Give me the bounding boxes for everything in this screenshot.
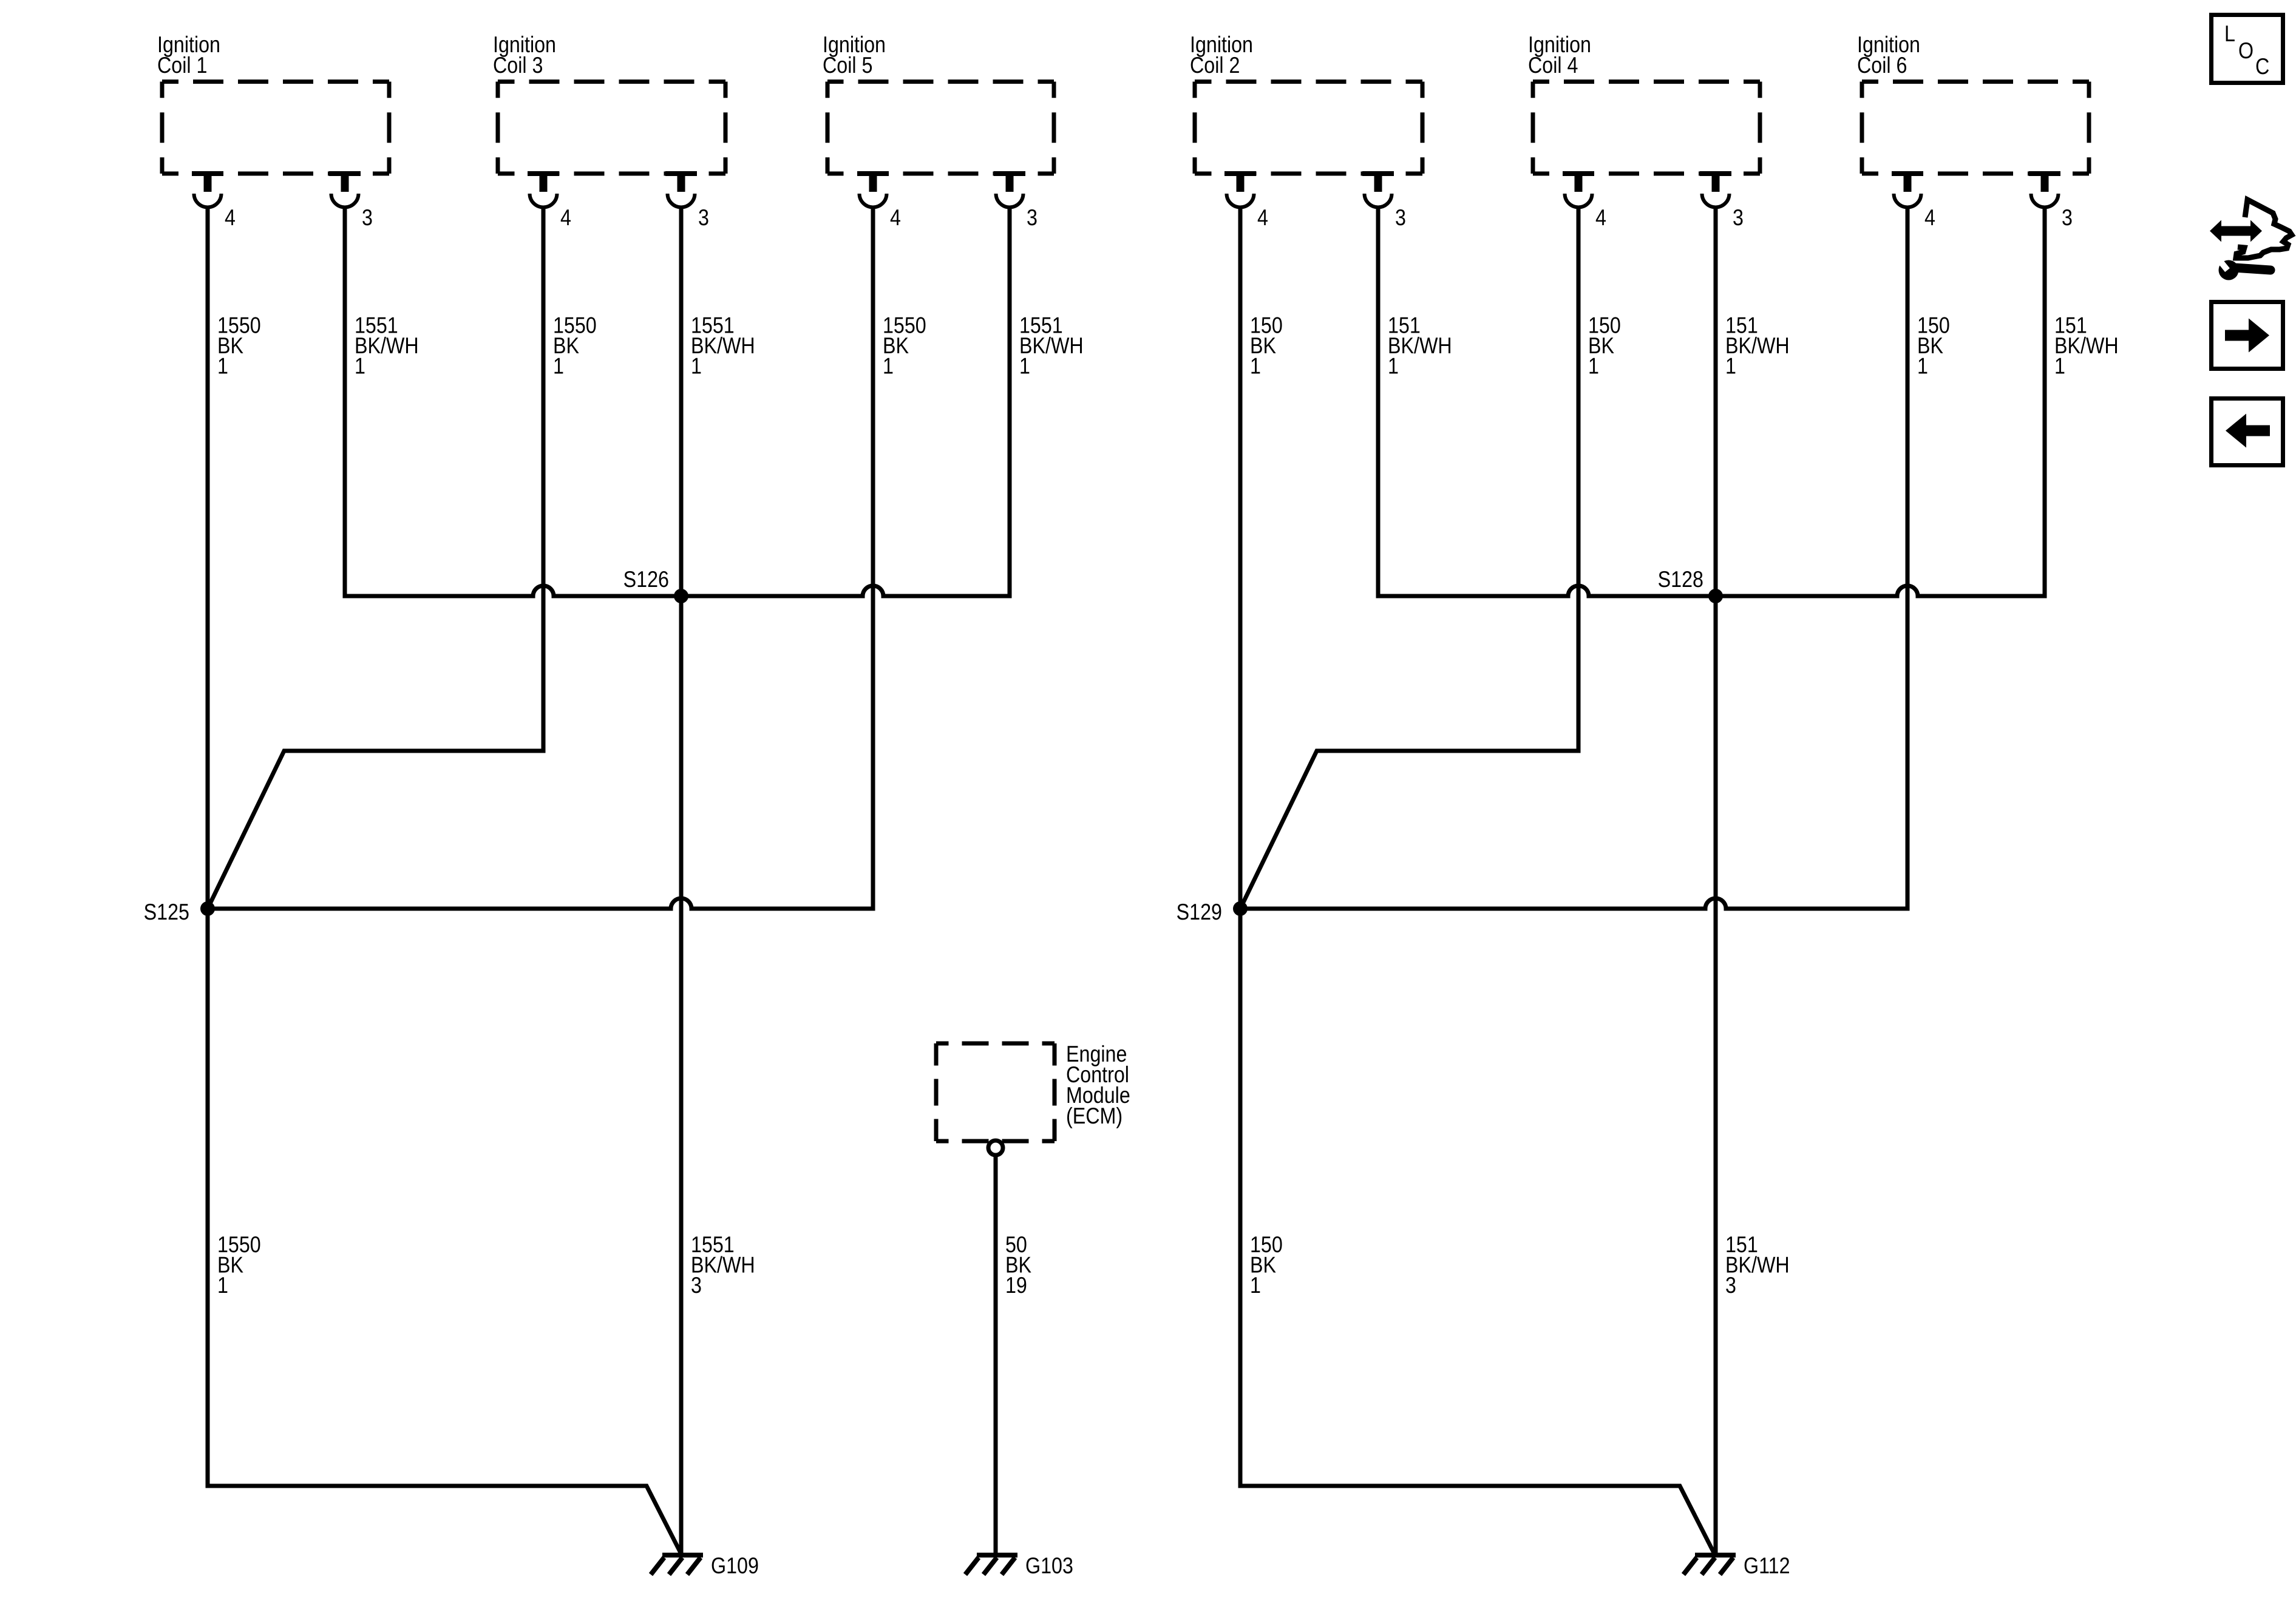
wire label 1550 BK 1 bbox=[883, 313, 926, 379]
svg-text:4: 4 bbox=[560, 205, 571, 230]
vehicle diagnostic icon (outline, double arrow, wrench) bbox=[2210, 200, 2292, 280]
svg-text:1: 1 bbox=[691, 353, 702, 379]
coil 5 pin 3 terminal bbox=[994, 174, 1025, 208]
ignition coil 2 label bbox=[1190, 32, 1253, 78]
coil 1 pin 4 terminal bbox=[192, 174, 223, 208]
pin number 3 bbox=[2062, 205, 2073, 230]
wire label 1551 BK/WH 1 bbox=[355, 313, 419, 379]
svg-text:G112: G112 bbox=[1744, 1553, 1790, 1578]
svg-text:4: 4 bbox=[890, 205, 901, 230]
node S125 label bbox=[144, 899, 189, 924]
coil 6 pin 3 terminal bbox=[2029, 174, 2060, 208]
ignition coil 3 label bbox=[493, 32, 556, 78]
svg-text:S129: S129 bbox=[1177, 899, 1222, 924]
coil 4 pin 3 terminal bbox=[1700, 174, 1731, 208]
svg-text:Coil 5: Coil 5 bbox=[823, 52, 872, 78]
svg-text:3: 3 bbox=[1733, 205, 1744, 230]
svg-text:1: 1 bbox=[217, 1272, 228, 1298]
svg-text:1: 1 bbox=[1588, 353, 1599, 379]
svg-text:4: 4 bbox=[1595, 205, 1606, 230]
wire S125 bus to coil 5 pin 4 (1550 BK) with hop bbox=[208, 207, 873, 909]
wire label 1551 BK/WH 1 bbox=[1019, 313, 1084, 379]
ignition coil 5 label bbox=[823, 32, 886, 78]
ground G112 bbox=[1683, 1555, 1736, 1575]
pin number 3 bbox=[1395, 205, 1406, 230]
svg-text:1: 1 bbox=[553, 353, 564, 379]
svg-text:1: 1 bbox=[1250, 353, 1261, 379]
wire label 1550 BK 1 bbox=[553, 313, 597, 379]
ignition coil 2 box bbox=[1195, 82, 1422, 174]
wire S125 down and over to G109 (1550 BK 1) bbox=[208, 909, 681, 1553]
coil 2 pin 3 terminal bbox=[1362, 174, 1394, 208]
svg-text:Coil 4: Coil 4 bbox=[1528, 52, 1578, 78]
ECM box (Engine Control Module) bbox=[936, 1043, 1055, 1141]
svg-text:1: 1 bbox=[1019, 353, 1030, 379]
ground G109 bbox=[651, 1555, 703, 1575]
svg-text:S125: S125 bbox=[144, 899, 189, 924]
ECM round terminal bbox=[988, 1141, 1003, 1155]
coil 3 pin 4 terminal bbox=[528, 174, 559, 208]
coil 1 pin 3 terminal bbox=[329, 174, 361, 208]
wire label 150 BK 1 bbox=[1250, 1232, 1283, 1298]
wire label 50 BK 19 bbox=[1005, 1232, 1031, 1298]
svg-text:4: 4 bbox=[1924, 205, 1935, 230]
wire coil 3 pin 3 / S126 down to G109 (1551 BK/WH 3) bbox=[679, 207, 684, 1555]
svg-text:(ECM): (ECM) bbox=[1066, 1103, 1123, 1128]
wire label 1550 BK 1 bbox=[217, 1232, 261, 1298]
svg-text:G109: G109 bbox=[711, 1553, 759, 1578]
wire label 150 BK 1 bbox=[1917, 313, 1950, 379]
svg-text:Coil 1: Coil 1 bbox=[157, 52, 207, 78]
svg-text:S126: S126 bbox=[623, 566, 669, 592]
svg-text:3: 3 bbox=[691, 1272, 702, 1298]
node S126 label bbox=[623, 566, 669, 592]
pin number 4 bbox=[560, 205, 571, 230]
svg-text:C: C bbox=[2255, 53, 2269, 79]
wire coil 4 pin 3 / S128 down to G112 (151 BK/WH 3) bbox=[1714, 207, 1718, 1555]
node S128 label bbox=[1658, 566, 1703, 592]
pin number 3 bbox=[362, 205, 373, 230]
forward arrow box icon bbox=[2212, 302, 2283, 369]
coil 2 pin 4 terminal bbox=[1224, 174, 1256, 208]
wire label 151 BK/WH 1 bbox=[2054, 313, 2119, 379]
wire label 151 BK/WH 1 bbox=[1388, 313, 1452, 379]
svg-text:1: 1 bbox=[1250, 1272, 1261, 1298]
wire S129 down and over to G112 (150 BK 1) bbox=[1240, 909, 1714, 1553]
wire label 1551 BK/WH 3 bbox=[691, 1232, 755, 1298]
svg-text:3: 3 bbox=[2062, 205, 2073, 230]
svg-text:L: L bbox=[2224, 21, 2235, 46]
splice S125 junction dot bbox=[200, 901, 215, 916]
svg-text:3: 3 bbox=[1725, 1272, 1736, 1298]
backward arrow box icon bbox=[2212, 399, 2283, 466]
wire label 151 BK/WH 1 bbox=[1725, 313, 1790, 379]
LOC reference box bbox=[2212, 15, 2283, 83]
svg-text:1: 1 bbox=[1388, 353, 1399, 379]
coil 5 pin 4 terminal bbox=[857, 174, 889, 207]
wire S128 bus: coil2 pin3 - coil4 pin3 - coil6 pin3 (151 BK/WH) with hops bbox=[1378, 207, 2045, 596]
ignition coil 5 box bbox=[827, 82, 1054, 174]
svg-text:4: 4 bbox=[225, 205, 236, 230]
svg-text:3: 3 bbox=[698, 205, 709, 230]
svg-text:1: 1 bbox=[1917, 353, 1928, 379]
ground label G109 bbox=[711, 1553, 759, 1578]
pin number 3 bbox=[1027, 205, 1038, 230]
pin number 3 bbox=[1733, 205, 1744, 230]
svg-text:3: 3 bbox=[362, 205, 373, 230]
coil 4 pin 4 terminal bbox=[1563, 174, 1594, 208]
svg-text:Coil 3: Coil 3 bbox=[493, 52, 543, 78]
svg-text:1: 1 bbox=[355, 353, 365, 379]
coil 6 pin 4 terminal bbox=[1892, 174, 1923, 208]
svg-text:1: 1 bbox=[1725, 353, 1736, 379]
svg-text:3: 3 bbox=[1395, 205, 1406, 230]
ground G103 bbox=[965, 1555, 1017, 1575]
ignition coil 4 box bbox=[1533, 82, 1760, 174]
ignition coil 3 box bbox=[498, 82, 725, 174]
svg-text:O: O bbox=[2238, 38, 2254, 63]
wire ECM to G103 (50 BK 19) bbox=[994, 1157, 998, 1555]
pin number 4 bbox=[225, 205, 236, 230]
ignition coil 6 label bbox=[1857, 32, 1920, 78]
node S129 label bbox=[1177, 899, 1222, 924]
svg-text:1: 1 bbox=[883, 353, 894, 379]
wire S126 bus: coil1 pin3 - coil3 pin3 - coil5 pin3 (1551 BK/WH) with hops bbox=[345, 207, 1010, 596]
svg-text:Coil 6: Coil 6 bbox=[1857, 52, 1907, 78]
wire label 150 BK 1 bbox=[1588, 313, 1621, 379]
svg-text:Coil 2: Coil 2 bbox=[1190, 52, 1240, 78]
pin number 4 bbox=[890, 205, 901, 230]
svg-text:19: 19 bbox=[1005, 1272, 1027, 1298]
wire label 150 BK 1 bbox=[1250, 313, 1283, 379]
ignition coil 1 box bbox=[162, 82, 389, 174]
splice S129 junction dot bbox=[1233, 901, 1248, 916]
svg-text:1: 1 bbox=[217, 353, 228, 379]
svg-text:3: 3 bbox=[1027, 205, 1038, 230]
splice S126 junction dot bbox=[674, 589, 688, 603]
ECM label bbox=[1066, 1041, 1130, 1128]
wire label 1550 BK 1 bbox=[217, 313, 261, 379]
ignition coil 1 label bbox=[157, 32, 220, 78]
pin number 3 bbox=[698, 205, 709, 230]
wire coil 2 pin 4 to S129 (150 BK) bbox=[1238, 207, 1243, 909]
wire S129 bus to coil 6 pin 4 (150 BK) with hop bbox=[1240, 207, 1907, 909]
ignition coil 6 box bbox=[1862, 82, 2089, 174]
ground label G103 bbox=[1025, 1553, 1073, 1578]
wire coil 4 pin 4 to S129 (150 BK) elbow + diagonal bbox=[1240, 207, 1578, 909]
wire label 1551 BK/WH 1 bbox=[691, 313, 755, 379]
svg-text:4: 4 bbox=[1257, 205, 1268, 230]
ignition coil 4 label bbox=[1528, 32, 1591, 78]
svg-text:1: 1 bbox=[2054, 353, 2065, 379]
wire coil 3 pin 4 to S125 (1550 BK) elbow + diagonal bbox=[208, 207, 543, 909]
pin number 4 bbox=[1595, 205, 1606, 230]
coil 3 pin 3 terminal bbox=[665, 174, 697, 208]
ground label G112 bbox=[1744, 1553, 1790, 1578]
wire label 151 BK/WH 3 bbox=[1725, 1232, 1790, 1298]
pin number 4 bbox=[1257, 205, 1268, 230]
svg-text:G103: G103 bbox=[1025, 1553, 1073, 1578]
wire coil 1 pin 4 to S125 (1550 BK) bbox=[206, 207, 210, 909]
pin number 4 bbox=[1924, 205, 1935, 230]
splice S128 junction dot bbox=[1708, 589, 1723, 603]
svg-text:S128: S128 bbox=[1658, 566, 1703, 592]
